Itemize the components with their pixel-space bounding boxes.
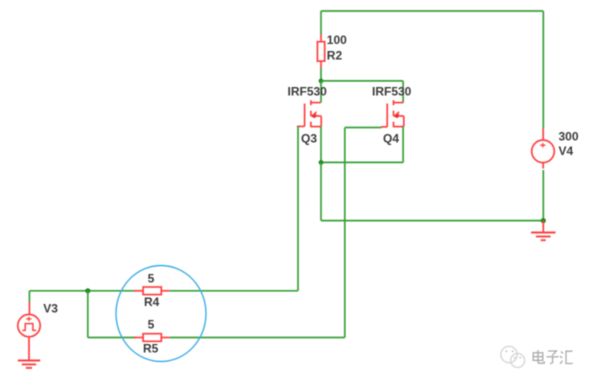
wire Q3 gate vertical <box>297 126 299 290</box>
label R5 <box>143 342 159 356</box>
svg-text:Q3: Q3 <box>301 132 317 146</box>
wire drain bus horizontal <box>321 80 403 82</box>
watermark logo bubbles <box>501 346 525 367</box>
resistor R5 <box>134 334 170 342</box>
svg-text:5: 5 <box>148 318 155 332</box>
svg-text:R5: R5 <box>143 342 159 356</box>
wire R4 left <box>29 290 135 292</box>
wire Q3 source <box>320 127 322 163</box>
wire R5 right <box>170 337 345 339</box>
node drain bus junction <box>319 79 324 84</box>
transistor Q4 <box>381 100 404 127</box>
label 100 (R2 value) <box>327 33 347 47</box>
label Q4 <box>383 132 399 146</box>
watermark text zi (son) <box>547 351 559 364</box>
label IRF530 (Q4) <box>372 85 412 99</box>
wire R4 right <box>170 290 298 292</box>
wire node down to R5 <box>87 291 89 338</box>
svg-text:R2: R2 <box>327 49 343 63</box>
resistor R4 <box>134 287 170 295</box>
wire V4 bottom <box>542 170 544 221</box>
resistor R2 <box>317 35 324 69</box>
wire source down <box>320 162 322 220</box>
label V3 <box>43 302 58 316</box>
svg-text:300: 300 <box>559 130 579 144</box>
label Q3 <box>301 132 317 146</box>
wire top bus <box>321 10 543 12</box>
node source junction <box>319 160 324 165</box>
svg-text:5: 5 <box>148 272 155 286</box>
label R4 <box>144 295 160 309</box>
label IRF530 (Q3) <box>288 85 328 99</box>
wire R2 bottom <box>320 68 322 81</box>
wire Q4 gate horizontal <box>345 127 382 129</box>
watermark text hui (gather) <box>560 351 573 364</box>
wire V3 top <box>28 291 30 302</box>
label 300 (V4 value) <box>559 130 579 144</box>
svg-text:V3: V3 <box>43 302 58 316</box>
svg-text:R4: R4 <box>144 295 160 309</box>
node V4 ground junction <box>541 218 546 223</box>
node V3 junction <box>85 288 90 293</box>
wire source bus horizontal <box>321 161 403 163</box>
wire V4 top vertical <box>542 11 544 128</box>
wire R2 top <box>320 11 322 35</box>
label V4 <box>559 144 574 158</box>
svg-text:V4: V4 <box>559 144 574 158</box>
svg-text:IRF530: IRF530 <box>372 85 412 99</box>
watermark text dian (electric) <box>533 350 544 363</box>
voltage source V4 <box>532 128 555 169</box>
transistor Q3 <box>297 100 321 127</box>
wire Q4 gate vertical <box>344 128 346 338</box>
annotation blue circle around R4 R5 <box>116 266 206 362</box>
wire Q4 drain <box>402 81 404 103</box>
wire Q4 source <box>402 127 404 163</box>
wire R5 left <box>88 337 136 339</box>
svg-text:Q4: Q4 <box>383 132 399 146</box>
wire bottom bus to V4 ground <box>321 220 543 222</box>
label R2 <box>327 49 343 63</box>
svg-text:IRF530: IRF530 <box>288 85 328 99</box>
svg-text:100: 100 <box>327 33 347 47</box>
label 5 (R5 value) <box>148 318 155 332</box>
ground (V3) <box>18 361 40 368</box>
voltage source V3 (pulse) <box>18 302 40 360</box>
label 5 (R4 value) <box>148 272 155 286</box>
ground (V4) <box>531 221 555 241</box>
wire Q3 drain <box>320 81 322 103</box>
